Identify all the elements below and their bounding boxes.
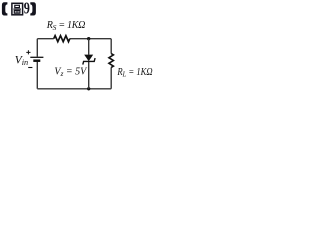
resistor RL: [109, 54, 114, 68]
svg-text:RL = 1KΩ: RL = 1KΩ: [116, 67, 152, 78]
minus terminal: [28, 67, 32, 69]
svg-text:Vz = 5V: Vz = 5V: [54, 67, 88, 79]
node B (bottom junction dot): [87, 87, 90, 90]
figure label 【圖 9】: [2, 0, 36, 18]
wire zener branch: [88, 39, 90, 89]
zener diode DZ: [83, 55, 95, 65]
battery Vin: [30, 57, 43, 60]
wire left: [36, 39, 38, 89]
wire top: [37, 38, 111, 40]
wire right: [110, 39, 112, 89]
plus terminal: [26, 50, 30, 54]
svg-text:9: 9: [24, 0, 30, 18]
resistor RS: [54, 36, 70, 42]
node A (top junction dot): [87, 37, 90, 40]
wire bottom: [37, 88, 111, 90]
svg-text:RS = 1KΩ: RS = 1KΩ: [46, 20, 85, 32]
